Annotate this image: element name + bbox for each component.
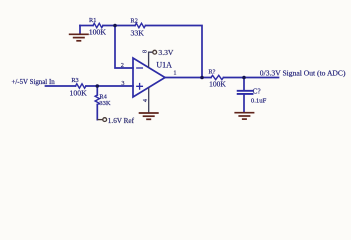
svg-text:R3: R3 xyxy=(71,77,78,84)
svg-text:8: 8 xyxy=(142,50,149,53)
pin 8 power stub xyxy=(149,50,157,67)
wire: capacitor to ground xyxy=(243,95,245,112)
wire: R4 to 1.6V ref port xyxy=(96,105,98,120)
svg-text:C?: C? xyxy=(253,88,261,96)
junction R3/R4/pin3 xyxy=(96,84,100,88)
svg-text:R2: R2 xyxy=(131,17,138,24)
svg-text:0/3.3V Signal Out (to ADC): 0/3.3V Signal Out (to ADC) xyxy=(260,69,346,78)
wire: R1 to R2 xyxy=(103,25,135,27)
svg-text:R1: R1 xyxy=(89,17,96,24)
resistor R2 xyxy=(135,23,145,27)
wire: down to capacitor xyxy=(243,78,245,90)
op-amp minus sign xyxy=(137,67,143,69)
svg-text:U1A: U1A xyxy=(156,60,172,69)
resistor R4 xyxy=(95,95,99,105)
1.6V ref port circle xyxy=(97,118,106,122)
wire top: ground to R1 xyxy=(80,25,93,27)
svg-text:33K: 33K xyxy=(130,29,144,38)
junction R?/C? xyxy=(242,76,246,80)
svg-text:+/-5V Signal In: +/-5V Signal In xyxy=(12,79,56,86)
wire: R? to output label xyxy=(224,77,279,79)
wire: junction down to pin2 xyxy=(115,26,133,69)
junction R1/R2/pin2 xyxy=(113,24,117,28)
svg-text:1.6V Ref: 1.6V Ref xyxy=(108,117,135,125)
op-amp U1A body xyxy=(133,58,165,97)
svg-text:100K: 100K xyxy=(69,88,87,97)
svg-text:4: 4 xyxy=(142,99,149,102)
svg-text:3.3V: 3.3V xyxy=(158,48,173,57)
ground (op-amp pin 4) xyxy=(139,113,159,119)
resistor R? xyxy=(211,75,223,79)
svg-text:100K: 100K xyxy=(209,79,226,88)
svg-text:3: 3 xyxy=(121,80,124,87)
svg-text:100K: 100K xyxy=(89,27,107,36)
resistor R1 xyxy=(93,23,103,27)
wire: R3 to pin3 xyxy=(86,85,133,87)
ground (top left) xyxy=(69,34,89,41)
svg-text:R?: R? xyxy=(208,68,215,75)
3.3V port circle xyxy=(153,50,157,54)
svg-text:33K: 33K xyxy=(99,100,111,107)
wire: junction to R4 xyxy=(96,86,98,95)
svg-text:0.1uF: 0.1uF xyxy=(251,98,267,105)
wire: signal in to R3 xyxy=(46,85,76,87)
resistor R3 xyxy=(76,84,86,88)
wire: ground stub xyxy=(79,26,81,34)
op-amp plus sign xyxy=(137,84,143,90)
ground (capacitor) xyxy=(234,113,254,119)
pin 4 power stub xyxy=(148,88,150,113)
svg-text:1: 1 xyxy=(173,70,176,77)
capacitor C? plates xyxy=(238,90,253,92)
junction feedback/output xyxy=(200,76,204,80)
wire: output pin1 xyxy=(165,77,211,79)
svg-text:2: 2 xyxy=(121,62,124,69)
wire: R2 to right corner and down xyxy=(146,26,203,78)
